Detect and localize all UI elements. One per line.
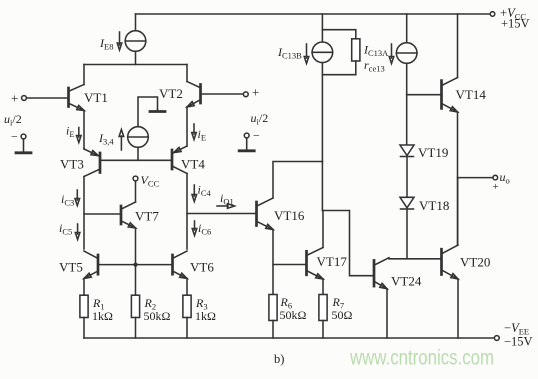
wire output tap	[458, 177, 493, 179]
node VCC terminal	[133, 176, 138, 181]
transistor VT3	[99, 153, 102, 173]
current source I_C13B	[312, 42, 333, 63]
current source I_3,4	[128, 127, 149, 148]
transistor VT24	[373, 260, 376, 286]
svg-text:rce13: rce13	[364, 58, 385, 74]
wire diode chain to VT24 collector line	[406, 209, 408, 259]
svg-text:iE: iE	[66, 124, 75, 140]
wire VT7 collector to VCC terminal	[135, 181, 137, 202]
wire I_E8 top lead	[135, 14, 137, 31]
transistor VT14	[440, 81, 443, 109]
svg-text:iC5: iC5	[59, 221, 72, 237]
svg-text:VT17: VT17	[317, 254, 348, 269]
ground right input	[246, 138, 248, 151]
svg-text:iC6: iC6	[198, 221, 211, 237]
svg-text:1kΩ: 1kΩ	[92, 309, 113, 323]
wire mid rail VT1/VT2 collectors	[84, 64, 187, 66]
transistor VT4	[171, 150, 174, 169]
wire bottom supply rail	[84, 337, 495, 339]
svg-text:VT20: VT20	[460, 255, 490, 270]
wire I_C13B top lead	[321, 30, 323, 42]
svg-text:www.cntronics.com: www.cntronics.com	[349, 347, 494, 370]
wire VT1 collector up	[83, 65, 85, 85]
wire VT17 collector up	[322, 211, 324, 248]
arrow I_3,4 current direction (up)	[120, 136, 122, 150]
wire VT3 collector down	[83, 177, 85, 250]
resistor R1	[83, 294, 85, 297]
svg-text:iE: iE	[198, 127, 207, 143]
svg-text:IC13A: IC13A	[363, 43, 389, 59]
svg-text:VT6: VT6	[190, 260, 214, 275]
current source I_E8	[125, 31, 146, 52]
wire between diodes	[406, 157, 408, 198]
wire VT2 emitter down	[186, 107, 188, 146]
transistor VT16	[255, 202, 258, 226]
arrow i_C6	[194, 221, 196, 230]
svg-text:VT1: VT1	[84, 90, 108, 105]
transistor VT6	[171, 255, 174, 274]
wire VT16 emitter down	[272, 230, 274, 297]
svg-text:ui/2: ui/2	[251, 111, 269, 127]
current source I_C13A	[396, 43, 417, 64]
transistor VT2	[199, 85, 202, 104]
wire VT24 collector rail to VT20 base	[389, 258, 442, 260]
svg-text:+: +	[252, 85, 259, 100]
wire I_C13B line continues to VT17	[321, 162, 323, 211]
wire I_E8 bottom lead	[135, 51, 137, 64]
ground left input	[23, 139, 25, 153]
resistor r_ce13	[352, 39, 360, 61]
svg-text:50Ω: 50Ω	[332, 308, 353, 322]
ground I_3,4	[157, 110, 159, 112]
arrow i_C4	[193, 185, 195, 196]
transistor VT20	[440, 249, 443, 274]
diode VT18	[400, 197, 414, 208]
resistor R2	[135, 267, 137, 296]
svg-text:+: +	[11, 91, 18, 106]
resistor R7	[322, 295, 324, 297]
wire VT3 emitter up link	[83, 148, 85, 151]
wire split to r_ce13	[322, 30, 355, 39]
wire VT3/VT4 base rail	[100, 159, 172, 161]
wire VT7 emitter down	[135, 228, 137, 265]
wire VT14 emitter down to output node	[457, 112, 459, 245]
svg-text:iC3: iC3	[61, 192, 74, 208]
wire VT3 collector to VT7 base	[84, 213, 121, 215]
svg-text:VT2: VT2	[159, 86, 183, 101]
svg-text:+: +	[493, 181, 499, 193]
svg-text:VT7: VT7	[135, 209, 159, 224]
wire VT5/VT6 base rail	[98, 264, 173, 266]
svg-text:ui/2: ui/2	[4, 112, 22, 128]
svg-text:VT14: VT14	[456, 87, 487, 102]
arrow i_C3	[76, 190, 78, 200]
diode VT19	[400, 145, 414, 156]
resistor R6	[272, 295, 274, 297]
wire VT14 base wire	[407, 94, 442, 96]
svg-text:50kΩ: 50kΩ	[280, 308, 307, 322]
wire I_E8 arrow shaft	[119, 32, 121, 45]
node junction VT7 emitter / base rail	[133, 263, 137, 267]
svg-text:−15V: −15V	[504, 335, 533, 349]
wire I_C13A bottom lead	[406, 63, 408, 145]
wire I_3,4 bottom lead	[137, 147, 139, 160]
svg-text:VT4: VT4	[181, 157, 205, 172]
svg-text:−: −	[253, 129, 260, 143]
arrow i_E right	[193, 124, 195, 134]
resistor R3	[186, 294, 188, 297]
wire VT2 collector up	[186, 65, 188, 82]
wire VT14 collector to top rail	[457, 14, 459, 78]
transistor VT5	[97, 255, 100, 274]
arrow I_C13A current direction	[391, 44, 393, 58]
wire VT20 emitter down to rail	[457, 279, 459, 338]
wire VT1 emitter down	[83, 111, 85, 149]
wire r_ce13 bottom lead	[322, 61, 355, 75]
wire VT17 collector node to VT24 base	[322, 211, 374, 276]
node +VCC terminal	[490, 12, 495, 17]
wire left input to VT1 base	[26, 97, 68, 99]
node left input + terminal	[22, 96, 27, 101]
svg-text:VT3: VT3	[60, 157, 84, 172]
node -VEE terminal	[494, 336, 499, 341]
svg-text:IC13B: IC13B	[277, 45, 302, 61]
transistor VT17	[305, 251, 308, 274]
arrow I_C13B current direction	[306, 44, 308, 58]
svg-text:I3,4: I3,4	[98, 131, 114, 147]
wire diff stage output to VT16 base	[187, 213, 257, 215]
node right input + terminal	[243, 92, 248, 97]
wire VT4 collector down	[186, 174, 188, 250]
svg-text:b): b)	[274, 352, 284, 366]
wire I_C13A drop from rail	[406, 14, 408, 43]
arrow i_O1	[217, 205, 228, 207]
svg-text:VT5: VT5	[59, 260, 83, 275]
svg-text:iO1: iO1	[220, 191, 234, 207]
svg-text:IE8: IE8	[99, 36, 113, 52]
svg-text:1kΩ: 1kΩ	[195, 309, 216, 323]
node left input - terminal	[21, 134, 26, 139]
svg-text:VCC: VCC	[141, 173, 160, 189]
svg-text:VT16: VT16	[274, 208, 305, 223]
wire VT2 base to right input	[201, 93, 244, 95]
svg-text:VT19: VT19	[418, 145, 448, 160]
svg-text:uo: uo	[500, 170, 510, 186]
svg-text:VT18: VT18	[419, 198, 449, 213]
wire VT16 collector up and over	[273, 162, 322, 199]
svg-text:VT24: VT24	[391, 274, 422, 289]
svg-text:−: −	[11, 130, 18, 144]
wire VT20 collector up to output node	[457, 178, 459, 245]
svg-text:50kΩ: 50kΩ	[144, 309, 171, 323]
wire top supply rail	[136, 13, 493, 15]
wire VT17 emitter to R7	[322, 279, 324, 296]
arrow I_E8 current direction	[117, 43, 122, 50]
svg-text:+15V: +15V	[501, 17, 530, 31]
wire VT6 emitter to R3	[186, 279, 188, 297]
wire I_C13B bottom lead down	[321, 63, 323, 162]
arrow i_C5	[77, 224, 79, 234]
svg-text:iC4: iC4	[198, 183, 212, 199]
transistor VT7	[120, 206, 123, 224]
arrow i_E left	[78, 128, 80, 138]
transistor VT1	[67, 88, 70, 107]
wire VT5 emitter to R1	[83, 279, 85, 297]
node output terminal u_o	[493, 175, 498, 180]
wire I_C13B drop from rail	[321, 14, 323, 30]
node right input - terminal	[244, 133, 249, 138]
wire I_3,4 top lead and ground jog	[138, 97, 158, 127]
wire VT16 emitter to VT17 base	[273, 264, 307, 266]
wire VT24 emitter down	[386, 289, 388, 338]
